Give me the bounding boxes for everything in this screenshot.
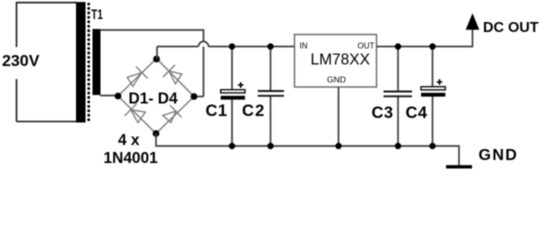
svg-text:230V: 230V [2,53,40,70]
voltage regulator U1 LM78XX [295,35,377,88]
svg-text:4 x: 4 x [118,132,140,149]
ground symbol [446,165,472,168]
svg-text:D1- D4: D1- D4 [129,91,178,108]
node regulator ground [335,143,341,149]
node bridge bottom corner [153,130,160,137]
transformer T1 primary winding [76,2,86,123]
bridge rectifier diamond [118,59,194,134]
DC output arrow [466,13,480,30]
capacitor C1 bottom plate [221,96,245,100]
node bridge right corner [191,93,198,100]
svg-text:C3: C3 [372,104,394,122]
node C1 bottom [229,143,235,149]
wire bridge top corner stub [156,47,158,60]
svg-text:DC OUT: DC OUT [483,20,539,36]
wire bridge bottom corner stub [156,134,459,147]
svg-text:LM78XX: LM78XX [311,52,371,69]
svg-text:C4: C4 [406,104,428,122]
wire bridge right corner to vertical drop [194,96,204,98]
node C3 bottom [395,143,401,149]
node C2 bottom [267,143,273,149]
capacitor C4 plus sign [437,79,443,85]
node C1 top [229,43,235,49]
svg-text:IN: IN [300,42,308,51]
wire regulator ground pin [338,87,340,146]
transformer T1 core [87,4,90,121]
node C4 bottom [429,143,435,149]
diode D3 bottom-left edge [125,104,146,123]
capacitor C2 wires [270,47,272,91]
capacitor C3 wires [397,47,399,92]
capacitor C4 bottom plate [421,93,445,97]
capacitor C2 plates [258,91,284,96]
svg-text:1N4001: 1N4001 [104,150,159,167]
wire secondary bottom to bridge left corner [100,95,118,97]
node bridge left corner [115,93,122,100]
node C2 top [267,43,273,49]
capacitor C1 wires [231,47,233,91]
wire secondary top to vertical drop [100,30,204,97]
capacitor C3 plates [384,92,413,97]
wire positive rail to regulator input [209,46,295,48]
node C4 top [429,43,435,49]
capacitor C4 wires [432,47,434,87]
wire hop over AC feed [199,42,209,47]
transformer T1 secondary winding [93,29,101,95]
node bridge top corner [153,56,160,63]
mains input box 230V [17,2,78,122]
capacitor C1 top plate [221,90,245,93]
diode D2 top-right edge [163,65,182,84]
capacitor C4 top plate [421,87,445,90]
node C3 top [395,43,401,49]
diode D1 top-left edge [127,66,148,86]
svg-text:GND: GND [479,147,519,164]
capacitor C1 plus sign [238,82,244,88]
svg-text:GND: GND [327,74,346,84]
wire output rail [377,46,473,48]
wire ground rail drop [458,145,460,166]
svg-text:C1: C1 [206,102,228,120]
wire to DC output [472,29,474,47]
svg-text:T1: T1 [91,6,103,22]
wire positive rail with hop [157,46,199,48]
diode D4 bottom-right edge [163,105,182,123]
svg-text:C2: C2 [242,102,266,120]
svg-text:OUT: OUT [358,42,375,51]
